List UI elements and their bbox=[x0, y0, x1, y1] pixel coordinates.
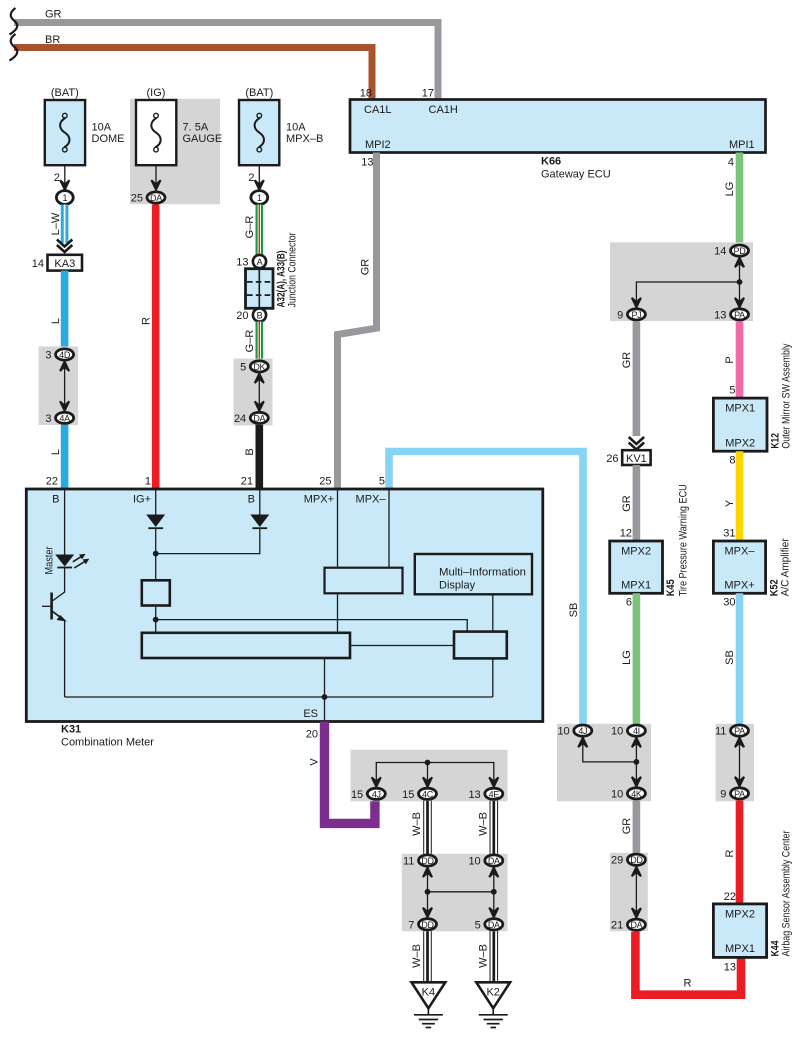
arrow down into 4J bbox=[372, 777, 381, 787]
svg-text:25: 25 bbox=[131, 193, 143, 205]
svg-text:Display: Display bbox=[439, 579, 476, 591]
svg-text:20: 20 bbox=[236, 310, 248, 322]
svg-text:11: 11 bbox=[403, 856, 414, 868]
transceiver block bbox=[325, 568, 403, 594]
wire GR (CAN H trunk, top) bbox=[14, 23, 438, 100]
receptacle chevron above KV1 bbox=[629, 437, 644, 450]
svg-text:12: 12 bbox=[620, 528, 632, 540]
svg-text:4J: 4J bbox=[578, 726, 587, 736]
outer mirror SW assembly K12 box bbox=[713, 398, 767, 451]
svg-text:3: 3 bbox=[45, 350, 51, 362]
svg-text:K4: K4 bbox=[422, 987, 435, 999]
fuse F2 7.5A GAUGE box bbox=[136, 100, 176, 165]
svg-text:CA1H: CA1H bbox=[429, 104, 458, 116]
svg-text:Master: Master bbox=[44, 546, 56, 574]
wire pin21 to diode D2 bbox=[259, 490, 261, 515]
LED indicator (Master) diode bbox=[55, 555, 88, 569]
fuse F3 10A MPX-B box bbox=[239, 100, 279, 165]
svg-text:PA: PA bbox=[734, 310, 745, 320]
junction dot at D1/D2 tie bbox=[153, 551, 159, 557]
wire G-R from junction B down to DK bbox=[255, 322, 263, 361]
arrow down into PA (pin 9) bbox=[735, 777, 744, 787]
wire MPX- into transceiver bbox=[388, 490, 390, 568]
ground point K4 bbox=[412, 982, 446, 1027]
svg-text:2: 2 bbox=[54, 172, 60, 184]
shaded zone around DD/DA (right) bbox=[610, 853, 648, 931]
wire R from PA down to K44 pin 22 bbox=[736, 800, 744, 904]
arrow down into DA (pin 5) bbox=[489, 908, 498, 918]
svg-text:5: 5 bbox=[379, 476, 385, 488]
junction connector block A32(A)/A33(B) bbox=[246, 269, 274, 309]
wire LED to transistor collector bbox=[52, 568, 64, 602]
svg-text:V: V bbox=[309, 758, 321, 766]
svg-text:GR: GR bbox=[621, 818, 633, 835]
connector oval PA (pin 9) bbox=[731, 788, 749, 799]
svg-text:(BAT): (BAT) bbox=[51, 87, 79, 99]
arrow down into 4K bbox=[632, 777, 641, 787]
svg-text:21: 21 bbox=[241, 476, 253, 488]
internal block (power) bbox=[142, 580, 170, 605]
shaded zone around GAUGE fuse bbox=[130, 99, 220, 204]
svg-text:GR: GR bbox=[621, 352, 633, 369]
arrow into connector DA (F2) bbox=[151, 180, 160, 190]
svg-text:MPX–B: MPX–B bbox=[286, 133, 323, 145]
junction dot below block bbox=[153, 617, 159, 623]
ground point K2 bbox=[476, 982, 510, 1027]
wire L-W from fuse DOME connector 1 down to KA3 bbox=[61, 205, 69, 244]
svg-text:Combination Meter: Combination Meter bbox=[61, 737, 154, 749]
svg-text:4A: 4A bbox=[59, 413, 70, 423]
svg-text:13: 13 bbox=[236, 257, 248, 269]
CPU block (long) bbox=[142, 633, 350, 658]
svg-text:W–B: W–B bbox=[411, 944, 423, 968]
splice bus 4J/4I to 4K bbox=[583, 738, 637, 787]
connector oval 1 (DOME) bbox=[56, 191, 73, 205]
arrow down into DD (pin 7) bbox=[423, 908, 432, 918]
svg-text:Gateway ECU: Gateway ECU bbox=[541, 169, 611, 181]
link line DD to DA (right) bbox=[635, 867, 637, 918]
wire MPX+ into transceiver bbox=[337, 490, 339, 568]
svg-text:L: L bbox=[50, 318, 62, 324]
pin lead of F2 bbox=[155, 165, 157, 188]
svg-text:GAUGE: GAUGE bbox=[183, 133, 223, 145]
svg-text:10: 10 bbox=[557, 726, 569, 738]
sub block (right) bbox=[454, 632, 507, 659]
svg-text:(BAT): (BAT) bbox=[245, 87, 273, 99]
connector oval 4E (pin 13) bbox=[485, 788, 503, 799]
arrow down into 4C bbox=[423, 777, 432, 787]
svg-text:GR: GR bbox=[45, 9, 62, 21]
svg-text:MPX2: MPX2 bbox=[725, 908, 755, 920]
svg-text:2: 2 bbox=[248, 172, 254, 184]
svg-text:25: 25 bbox=[319, 476, 331, 488]
shaded zone around PA/PA (right) bbox=[716, 724, 755, 802]
svg-text:G–R: G–R bbox=[244, 330, 256, 353]
wire L from 4A down to K31 pin 22 bbox=[61, 425, 69, 489]
ES ground rail bbox=[65, 696, 493, 698]
svg-text:Junction Connector: Junction Connector bbox=[287, 232, 299, 307]
combination meter K31 box bbox=[26, 489, 543, 722]
svg-text:DD: DD bbox=[421, 856, 434, 866]
svg-text:7. 5A: 7. 5A bbox=[183, 122, 209, 134]
svg-text:DA: DA bbox=[488, 856, 500, 866]
svg-text:Y: Y bbox=[724, 499, 736, 507]
arrow up into 4J bbox=[578, 738, 587, 748]
svg-text:14: 14 bbox=[714, 246, 726, 258]
connector oval DA (pin 24) bbox=[250, 412, 268, 423]
connector oval PA (pin 13) bbox=[731, 309, 749, 320]
transistor Q (meter driver) bbox=[42, 593, 65, 621]
svg-text:10: 10 bbox=[611, 788, 623, 800]
connector oval 4A (pin 3) bbox=[56, 412, 74, 423]
svg-text:4C: 4C bbox=[422, 789, 434, 799]
connector oval PJ (pin 9) bbox=[627, 309, 645, 320]
svg-text:GR: GR bbox=[360, 259, 372, 276]
shaded zone around 4J/4I/4K bbox=[557, 724, 651, 802]
wire GR from K66 pin 13 down to K31 pin 25 bbox=[338, 153, 377, 490]
fuse element symbol F1 bbox=[60, 113, 69, 152]
svg-text:MPI1: MPI1 bbox=[729, 139, 755, 151]
arrow up into 4D bbox=[60, 362, 69, 372]
svg-text:A/C Amplifier: A/C Amplifier bbox=[780, 538, 792, 596]
arrow down into DA (right) bbox=[632, 908, 641, 918]
wire W-B from 4E down to DA bbox=[489, 801, 498, 854]
svg-text:9: 9 bbox=[617, 309, 623, 321]
svg-text:5: 5 bbox=[475, 919, 481, 931]
junction terminal A (pin 13) bbox=[253, 255, 266, 268]
svg-text:BR: BR bbox=[45, 34, 60, 46]
link line PA to PA bbox=[739, 738, 741, 787]
svg-text:LG: LG bbox=[724, 182, 736, 197]
svg-text:MPX2: MPX2 bbox=[725, 437, 755, 449]
svg-text:30: 30 bbox=[723, 597, 735, 609]
junction dot at DA leg bbox=[491, 889, 497, 895]
svg-text:4K: 4K bbox=[631, 789, 642, 799]
connector oval DD (pin 29) bbox=[627, 854, 645, 865]
wire D1 down and over to D2 bbox=[156, 528, 260, 580]
svg-text:K66: K66 bbox=[541, 156, 561, 168]
arrow down into DA (meter side) bbox=[255, 401, 264, 411]
receptacle chevron above KA3 bbox=[57, 240, 72, 253]
svg-text:4E: 4E bbox=[489, 789, 500, 799]
connector oval PD (pin 14) bbox=[731, 245, 749, 256]
svg-text:B: B bbox=[52, 494, 59, 506]
svg-text:MPI2: MPI2 bbox=[365, 139, 391, 151]
svg-text:1: 1 bbox=[145, 476, 151, 488]
svg-text:R: R bbox=[724, 849, 736, 857]
svg-text:PJ: PJ bbox=[631, 310, 641, 320]
connector oval DA (pin 10) bbox=[485, 855, 503, 866]
svg-text:21: 21 bbox=[611, 920, 623, 932]
svg-text:L–W: L–W bbox=[50, 212, 62, 235]
svg-text:MPX–: MPX– bbox=[725, 546, 756, 558]
svg-text:5: 5 bbox=[240, 361, 246, 373]
svg-text:14: 14 bbox=[32, 258, 44, 270]
svg-text:W–B: W–B bbox=[477, 944, 489, 968]
wire sub block down to ES rail bbox=[492, 658, 494, 697]
link line DK to DA bbox=[258, 373, 260, 411]
fuse element symbol F2 bbox=[151, 113, 160, 152]
arrow down into PJ bbox=[632, 298, 641, 308]
svg-text:10: 10 bbox=[611, 726, 623, 738]
svg-text:PA: PA bbox=[734, 726, 745, 736]
wire V from K31 pin 20 to splice 4J bbox=[325, 722, 375, 824]
gateway ECU K66 box bbox=[350, 100, 766, 153]
wire BR (CAN L trunk, top) bbox=[14, 48, 372, 100]
wire L from KA3 down to 4D bbox=[61, 271, 69, 348]
wire ES rail to pin 20 bbox=[324, 697, 326, 720]
svg-text:DK: DK bbox=[253, 362, 265, 372]
svg-text:CA1L: CA1L bbox=[364, 104, 392, 116]
svg-text:10A: 10A bbox=[286, 122, 306, 134]
svg-text:K31: K31 bbox=[61, 724, 81, 736]
wire CPU block down to ES rail bbox=[324, 658, 326, 697]
svg-text:MPX+: MPX+ bbox=[724, 580, 754, 592]
shaded zone around 4D/4A bbox=[39, 346, 79, 425]
pin 2 lead of F1 bbox=[64, 165, 66, 188]
svg-text:IG+: IG+ bbox=[133, 494, 151, 506]
arrow up into DD bbox=[423, 868, 432, 878]
wire W-B from DD down to ground K4 bbox=[423, 931, 432, 983]
wire block to logic rail bbox=[156, 606, 468, 633]
svg-text:SB: SB bbox=[568, 603, 580, 618]
shaded zone around DK/DA bbox=[234, 359, 273, 426]
svg-text:DA: DA bbox=[150, 193, 162, 203]
svg-text:31: 31 bbox=[723, 528, 735, 540]
svg-text:ES: ES bbox=[303, 708, 318, 720]
arrow up into DA bbox=[489, 868, 498, 878]
svg-text:(IG): (IG) bbox=[147, 87, 166, 99]
A/C amplifier K52 box bbox=[713, 541, 765, 593]
connector oval PA (pin 11) bbox=[731, 725, 749, 736]
wire W-B from 4C down to DD bbox=[423, 801, 432, 854]
shaded zone around 4J/4C/4E bbox=[351, 750, 508, 802]
svg-text:11: 11 bbox=[715, 726, 726, 738]
svg-text:MPX2: MPX2 bbox=[621, 546, 651, 558]
wire transceiver to CPU block bbox=[337, 593, 339, 633]
connector oval 4C (pin 15) bbox=[419, 788, 437, 799]
wire GR from PJ down to KV1 bbox=[633, 321, 641, 436]
svg-text:3: 3 bbox=[45, 413, 51, 425]
fuse element symbol F3 bbox=[255, 113, 264, 152]
arrow up into 4I bbox=[632, 738, 641, 748]
wire LG from K45 pin 6 down to 4I bbox=[633, 593, 641, 725]
connector oval 4K (pin 10) bbox=[627, 788, 645, 799]
svg-text:LG: LG bbox=[621, 650, 633, 665]
svg-text:MPX1: MPX1 bbox=[725, 403, 755, 415]
connector oval 4J (pin 15) bbox=[367, 788, 385, 799]
junction dot on ES rail bbox=[322, 694, 328, 700]
svg-text:4J: 4J bbox=[372, 789, 381, 799]
ground bus link 4J-4C-4E bbox=[376, 763, 494, 787]
svg-text:4: 4 bbox=[728, 157, 734, 169]
svg-text:SB: SB bbox=[724, 650, 736, 665]
wire G-R from fuse MPX-B connector 1 down to junction A bbox=[255, 205, 263, 257]
wire P from PA down to K12 pin 5 bbox=[736, 321, 744, 398]
svg-text:Outer Mirror SW Assembly: Outer Mirror SW Assembly bbox=[781, 343, 793, 448]
splice bus PD to PJ and PA bbox=[636, 258, 739, 308]
svg-text:DA: DA bbox=[253, 413, 265, 423]
svg-text:B: B bbox=[248, 494, 255, 506]
svg-text:R: R bbox=[684, 978, 692, 990]
svg-text:MPX–: MPX– bbox=[356, 494, 387, 506]
junction dot on bus at 4C bbox=[425, 760, 431, 766]
svg-text:B: B bbox=[257, 311, 263, 321]
svg-text:20: 20 bbox=[306, 729, 318, 741]
diode D1 (IG+) bbox=[146, 515, 165, 529]
wire display block down to sub block bbox=[492, 594, 494, 631]
shaded zone around PD/PJ/PA bbox=[610, 242, 753, 321]
svg-text:13: 13 bbox=[714, 309, 726, 321]
svg-text:5: 5 bbox=[729, 385, 735, 397]
svg-text:22: 22 bbox=[724, 891, 736, 903]
link line 4D to 4A bbox=[64, 362, 66, 411]
connector oval DA (pin 5) bbox=[485, 919, 503, 930]
svg-text:29: 29 bbox=[611, 855, 623, 867]
wire LG from K66 pin 4 down to PD bbox=[736, 153, 744, 246]
wire CPU block to sub block bbox=[350, 645, 454, 647]
svg-text:Multi–Information: Multi–Information bbox=[439, 566, 526, 578]
wire R from fuse GAUGE connector DA down to K31 pin 1 bbox=[152, 205, 160, 490]
svg-text:KA3: KA3 bbox=[54, 258, 75, 270]
svg-text:MPX1: MPX1 bbox=[725, 943, 755, 955]
svg-text:4I: 4I bbox=[633, 726, 640, 736]
svg-text:K45: K45 bbox=[665, 579, 677, 596]
svg-text:B: B bbox=[244, 448, 256, 455]
svg-text:GR: GR bbox=[621, 495, 633, 512]
shaded zone around DD/DA pairs bbox=[402, 854, 508, 932]
svg-text:DD: DD bbox=[421, 920, 434, 930]
svg-text:15: 15 bbox=[351, 789, 363, 801]
wire GR from KV1 down to K45 pin 12 bbox=[633, 465, 641, 541]
svg-text:DD: DD bbox=[630, 855, 643, 865]
arrow into connector 1 (F3) bbox=[255, 180, 264, 190]
wire R from DA down around to K44 pin 13 bbox=[635, 932, 741, 995]
relay block connector KV1 (pin 26) bbox=[622, 450, 650, 465]
arrow down into 4A bbox=[60, 401, 69, 411]
svg-text:MPX1: MPX1 bbox=[621, 580, 651, 592]
wire pin1 to diode D1 bbox=[155, 490, 157, 515]
svg-text:7: 7 bbox=[408, 919, 414, 931]
connector oval 4I (pin 10) bbox=[627, 725, 645, 736]
wire GR from 4K down to DD bbox=[633, 800, 641, 854]
svg-text:L: L bbox=[50, 449, 62, 455]
svg-text:MPX+: MPX+ bbox=[304, 494, 334, 506]
svg-text:18: 18 bbox=[360, 88, 372, 100]
svg-text:A: A bbox=[257, 257, 263, 267]
svg-text:24: 24 bbox=[234, 413, 246, 425]
svg-text:DOME: DOME bbox=[92, 133, 125, 145]
continuation mark for BR wire bbox=[10, 34, 18, 61]
wire Y from K12 pin 8 down to K52 pin 31 bbox=[736, 451, 744, 541]
svg-text:22: 22 bbox=[46, 476, 58, 488]
wire pin22 to LED bbox=[64, 490, 66, 555]
connector oval DA (pin 21) bbox=[627, 919, 645, 930]
svg-text:Tire Pressure Warning ECU: Tire Pressure Warning ECU bbox=[678, 484, 690, 596]
arrow down into PA bbox=[735, 298, 744, 308]
svg-text:10: 10 bbox=[468, 856, 480, 868]
connector oval DK (pin 5) bbox=[250, 361, 268, 372]
ground tie bus between DD/DA pairs bbox=[428, 868, 494, 918]
arrow into connector 1 (F1) bbox=[60, 180, 69, 190]
wire SB from K52 pin 30 down to PA bbox=[736, 593, 744, 725]
pin 2 lead of F3 bbox=[258, 165, 260, 188]
arrow up into PD bbox=[735, 258, 744, 268]
svg-text:W–B: W–B bbox=[477, 812, 489, 836]
svg-text:9: 9 bbox=[720, 788, 726, 800]
connector oval 4D (pin 3) bbox=[56, 349, 74, 360]
svg-text:8: 8 bbox=[729, 455, 735, 467]
svg-text:1: 1 bbox=[257, 193, 262, 203]
arrow up into DD (right) bbox=[632, 867, 641, 877]
wire W-B from DA down to ground K2 bbox=[489, 931, 498, 983]
arrow down into 4E bbox=[489, 777, 498, 787]
junction dot below PD bbox=[737, 279, 743, 285]
wire transistor emitter down to ES rail bbox=[64, 620, 66, 697]
svg-text:4D: 4D bbox=[59, 350, 71, 360]
svg-text:15: 15 bbox=[402, 789, 414, 801]
junction dot at 4I leg bbox=[634, 759, 640, 765]
svg-text:PA: PA bbox=[734, 789, 745, 799]
connector oval 4J (pin 10) bbox=[574, 725, 592, 736]
junction terminal B (pin 20) bbox=[253, 308, 266, 321]
svg-text:R: R bbox=[141, 317, 153, 325]
relay block connector KA3 (pin 14) bbox=[48, 255, 83, 271]
svg-text:10A: 10A bbox=[92, 122, 112, 134]
arrow up into PA (pin 11) bbox=[735, 738, 744, 748]
svg-text:Airbag Sensor Assembly Center: Airbag Sensor Assembly Center bbox=[781, 830, 793, 956]
connector oval DA with pin 25 bbox=[147, 192, 165, 203]
wire SB from K31 pin 5 up over to connector 4J bbox=[389, 452, 583, 726]
svg-text:KV1: KV1 bbox=[626, 453, 647, 465]
svg-text:13: 13 bbox=[724, 962, 736, 974]
junction dot at DD leg bbox=[425, 889, 431, 895]
svg-text:K2: K2 bbox=[486, 987, 499, 999]
svg-text:17: 17 bbox=[422, 88, 434, 100]
svg-text:DA: DA bbox=[630, 920, 642, 930]
fuse F1 10A DOME box bbox=[45, 100, 85, 165]
airbag sensor assembly center K44 box bbox=[713, 904, 766, 958]
connector oval DD (pin 11) bbox=[419, 855, 437, 866]
connector oval DD (pin 7) bbox=[419, 919, 437, 930]
svg-text:1: 1 bbox=[62, 193, 67, 203]
arrow up into DK bbox=[255, 373, 264, 383]
svg-text:G–R: G–R bbox=[244, 216, 256, 239]
svg-text:13: 13 bbox=[361, 157, 373, 169]
svg-text:PD: PD bbox=[734, 246, 747, 256]
continuation mark for GR wire bbox=[10, 8, 18, 35]
svg-text:DA: DA bbox=[488, 920, 500, 930]
svg-text:13: 13 bbox=[468, 789, 480, 801]
svg-text:P: P bbox=[724, 356, 736, 363]
tire pressure warning ECU K45 box bbox=[610, 541, 663, 593]
wire B from DA down to K31 pin 21 bbox=[255, 425, 263, 489]
connector oval 1 (MPX-B) bbox=[251, 191, 268, 205]
svg-text:6: 6 bbox=[626, 597, 632, 609]
diode D2 (B) bbox=[250, 515, 269, 529]
svg-text:W–B: W–B bbox=[411, 812, 423, 836]
multi-information display block bbox=[415, 554, 532, 594]
svg-text:26: 26 bbox=[606, 453, 618, 465]
